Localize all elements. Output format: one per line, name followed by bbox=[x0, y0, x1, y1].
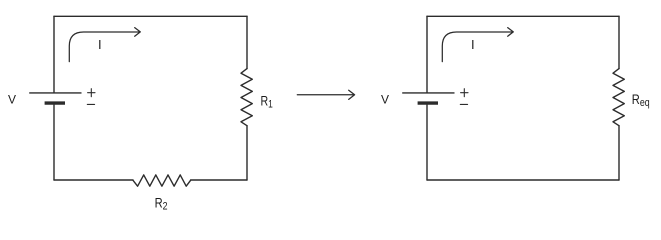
wire: left circuit bottom side, right of R2 bbox=[191, 179, 247, 181]
svg-text:V: V bbox=[381, 92, 389, 106]
wire: left circuit top side bbox=[54, 15, 247, 17]
wire: right circuit bottom side bbox=[427, 179, 619, 181]
minus sign of battery (left) bbox=[87, 103, 94, 105]
wire: left circuit left side below battery bbox=[53, 105, 55, 180]
label R1 bbox=[261, 93, 273, 111]
minus sign of battery (right) bbox=[460, 103, 467, 105]
svg-text:Req: Req bbox=[632, 92, 650, 110]
battery V (left): top thin plate bbox=[29, 92, 81, 94]
label V (left source) bbox=[8, 92, 16, 106]
svg-text:R1: R1 bbox=[261, 93, 273, 111]
current arrow I (right circuit) bbox=[442, 28, 513, 62]
wire: right circuit top side bbox=[427, 15, 619, 17]
resistor Req (vertical zigzag, right of right circuit) bbox=[613, 69, 624, 126]
wire: right circuit left side below battery bbox=[426, 105, 428, 180]
svg-text:V: V bbox=[8, 92, 16, 106]
label V (right source) bbox=[381, 92, 389, 106]
resistor R1 (vertical zigzag, right of left circuit) bbox=[241, 69, 252, 126]
wire: left circuit left side above battery bbox=[53, 16, 55, 92]
label Req bbox=[632, 92, 650, 110]
resistor R2 (horizontal zigzag, bottom of left circuit) bbox=[133, 175, 191, 186]
current arrow I (left circuit) bbox=[69, 28, 140, 62]
wire: left circuit right side below R1 bbox=[246, 126, 248, 180]
wire: left circuit bottom side, left of R2 bbox=[54, 179, 133, 181]
wire: right circuit left side above battery bbox=[426, 16, 428, 92]
wire: right circuit right side above Req bbox=[618, 16, 620, 68]
battery V (left): bottom thick plate bbox=[45, 101, 65, 104]
svg-text:R2: R2 bbox=[155, 195, 168, 213]
arrow between circuits bbox=[297, 90, 354, 99]
label I (left current) bbox=[98, 37, 102, 52]
svg-text:I: I bbox=[98, 37, 102, 52]
label R2 bbox=[155, 195, 168, 213]
svg-text:I: I bbox=[471, 37, 475, 52]
plus sign of battery (left) bbox=[88, 89, 95, 97]
wire: left circuit right side above R1 bbox=[246, 16, 248, 68]
battery V (right): top thin plate bbox=[402, 92, 454, 94]
plus sign of battery (right) bbox=[461, 89, 468, 97]
wire: right circuit right side below Req bbox=[618, 126, 620, 180]
battery V (right): bottom thick plate bbox=[418, 101, 438, 104]
label I (right current) bbox=[471, 37, 475, 52]
